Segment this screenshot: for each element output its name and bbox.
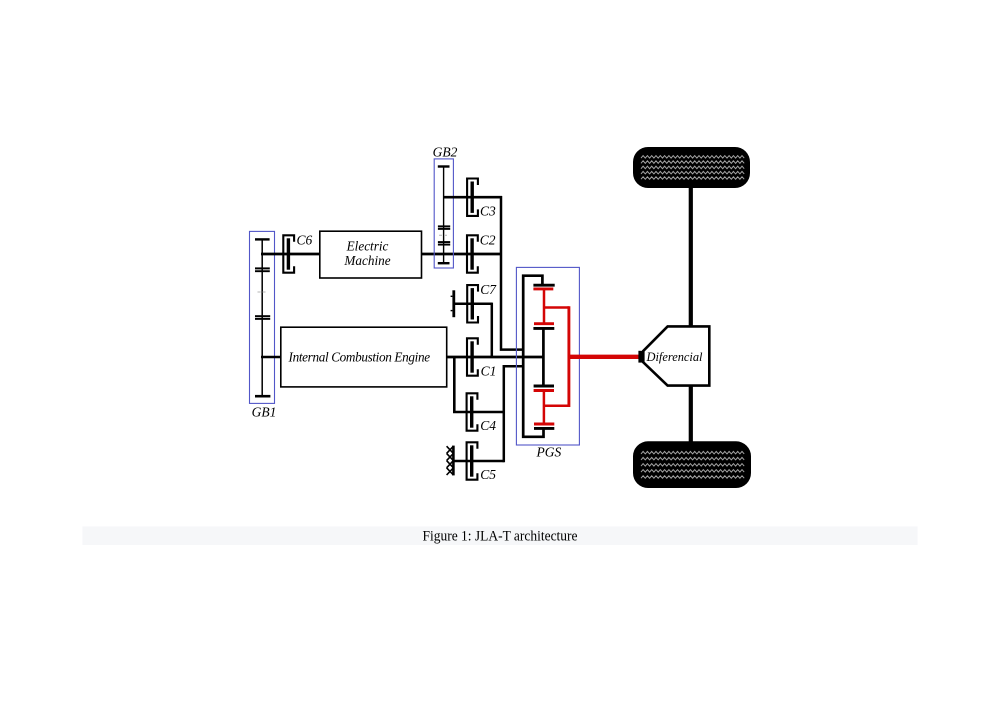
wire C4 to right bus: [470, 411, 504, 414]
gearbox GB2 enclosure box: [434, 159, 453, 268]
svg-text:Figure 1: JLA-T architecture: Figure 1: JLA-T architecture: [423, 529, 578, 545]
axle shaft upper: [689, 187, 693, 326]
wire housing to C5: [453, 460, 470, 463]
svg-text:Internal Combustion Engine: Internal Combustion Engine: [288, 350, 431, 365]
PGS mesh 2 ring bar (black): [533, 327, 554, 330]
rear tire: [633, 441, 751, 488]
wire main shaft down to C4: [454, 357, 470, 412]
clutch C5 inner plate: [470, 445, 473, 476]
PGS mesh 2 sun bar (red): [534, 322, 554, 325]
C7 anchor hatch marks: [451, 295, 453, 297]
svg-text:GB2: GB2: [433, 144, 458, 159]
clutch C6 outer cup: [283, 235, 294, 272]
axle shaft lower: [689, 386, 693, 442]
C5 fixed housing wall: [452, 446, 455, 476]
wire GB1 to Internal Combustion Engine: [261, 356, 281, 359]
svg-text:Electric: Electric: [346, 239, 389, 254]
gearbox GB1 shaft: [261, 239, 263, 396]
red wire lower branch: [544, 405, 569, 408]
svg-text:C3: C3: [480, 204, 496, 219]
gearbox GB1 enclosure box: [250, 231, 275, 403]
clutch C2 outer cup: [467, 235, 478, 272]
C5 fixed housing hatch: [447, 446, 454, 475]
differential input tab: [638, 351, 643, 363]
svg-text:C4: C4: [480, 418, 496, 433]
PGS mesh 3 ring bar (black): [534, 385, 554, 388]
PGS red sun shaft lower: [543, 391, 546, 425]
red output vertical: [567, 306, 570, 407]
wire C7 down to main shaft: [491, 303, 494, 357]
PGS mesh 4 sun bar (red): [534, 423, 554, 426]
clutch C2 inner plate: [470, 238, 473, 269]
svg-text:PGS: PGS: [536, 444, 562, 459]
PGS black sun shaft: [542, 328, 545, 386]
differential housing: [643, 326, 709, 385]
clutch C3 inner plate: [471, 182, 474, 213]
Electric Machine block: [320, 231, 422, 278]
clutch C7 inner plate: [471, 288, 474, 319]
main shaft ICE to PGS sun: [447, 356, 544, 359]
wire anchor to C7: [454, 303, 492, 306]
clutch C4 outer cup: [467, 393, 478, 430]
red output wire to differential: [569, 355, 639, 359]
PGS red sun shaft upper: [543, 289, 546, 324]
wire Electric Machine through GB2 to C2: [421, 253, 501, 256]
svg-text:GB1: GB1: [252, 404, 277, 419]
wire GB1 to C6 to Electric Machine: [261, 253, 320, 256]
Internal Combustion Engine block: [281, 327, 447, 387]
svg-text:C2: C2: [480, 232, 496, 247]
clutch C7 outer cup: [467, 285, 478, 322]
GB1 gear pair lower: [255, 315, 270, 317]
clutch C1 inner plate: [470, 341, 473, 372]
rear tire tread: [641, 451, 744, 478]
gearbox GB2 shaft: [443, 166, 445, 263]
PGS mesh 4 ring bar (black): [534, 427, 554, 430]
wire GB2 to C3 and on to right bus: [444, 196, 502, 199]
wire vertical bus C3/C2 down to carrier: [501, 196, 523, 350]
front tire tread: [641, 156, 744, 180]
clutch C5 outer cup: [467, 442, 478, 479]
front tire: [633, 147, 750, 188]
clutch C6 inner plate: [287, 238, 290, 269]
GB1 shaft bottom bar: [255, 395, 270, 398]
svg-text:Diferencial: Diferencial: [646, 350, 704, 364]
wire C5 to right bus: [470, 460, 504, 463]
C7 anchor bar: [452, 290, 455, 317]
GB2 shaft bottom bar: [438, 262, 450, 264]
GB2 axis tick: [439, 234, 448, 236]
GB2 gear pair lower: [438, 241, 450, 243]
caption highlight band: [82, 526, 917, 545]
GB2 gear pair upper: [438, 225, 450, 227]
PGS planet carrier frame: [523, 276, 543, 437]
PGS mesh 3 sun bar (red): [534, 389, 554, 392]
GB1 axis tick: [258, 291, 267, 293]
PGS mesh 1 sun bar (red): [533, 287, 553, 290]
red wire upper branch: [544, 306, 569, 309]
PGS mesh 1 ring bar (black): [533, 284, 554, 287]
PGS enclosure box: [516, 267, 579, 445]
clutch C1 outer cup: [467, 338, 478, 375]
svg-text:C1: C1: [481, 364, 497, 379]
svg-text:C5: C5: [480, 467, 496, 482]
wire vertical bus C4/C5 up to carrier: [504, 366, 523, 462]
clutch C3 outer cup: [467, 179, 478, 216]
svg-text:Machine: Machine: [343, 253, 390, 268]
svg-text:C7: C7: [480, 282, 497, 297]
GB2 shaft top bar: [438, 165, 450, 167]
svg-text:C6: C6: [297, 232, 313, 247]
GB1 shaft top bar: [255, 238, 270, 240]
GB1 gear pair upper: [255, 267, 270, 269]
clutch C4 inner plate: [470, 396, 473, 427]
